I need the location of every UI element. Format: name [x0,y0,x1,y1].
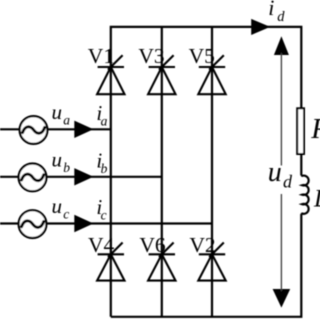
svg-text:b: b [63,160,70,175]
svg-text:c: c [101,208,107,223]
svg-text:d: d [277,9,285,25]
svg-text:R: R [310,113,320,145]
svg-text:V6: V6 [139,233,166,257]
svg-text:L: L [313,186,320,213]
svg-text:V5: V5 [189,44,215,68]
svg-text:i: i [268,0,274,20]
svg-text:u: u [268,157,282,188]
svg-text:b: b [101,161,108,176]
svg-text:c: c [63,207,69,222]
svg-text:V3: V3 [138,44,164,68]
svg-text:u: u [52,147,63,171]
svg-text:V4: V4 [88,233,115,257]
svg-text:V2: V2 [189,233,215,257]
svg-text:a: a [101,113,108,128]
svg-text:u: u [52,194,63,218]
svg-text:a: a [63,112,70,127]
svg-text:V1: V1 [88,44,114,68]
svg-text:u: u [52,100,63,124]
svg-text:d: d [283,172,293,192]
